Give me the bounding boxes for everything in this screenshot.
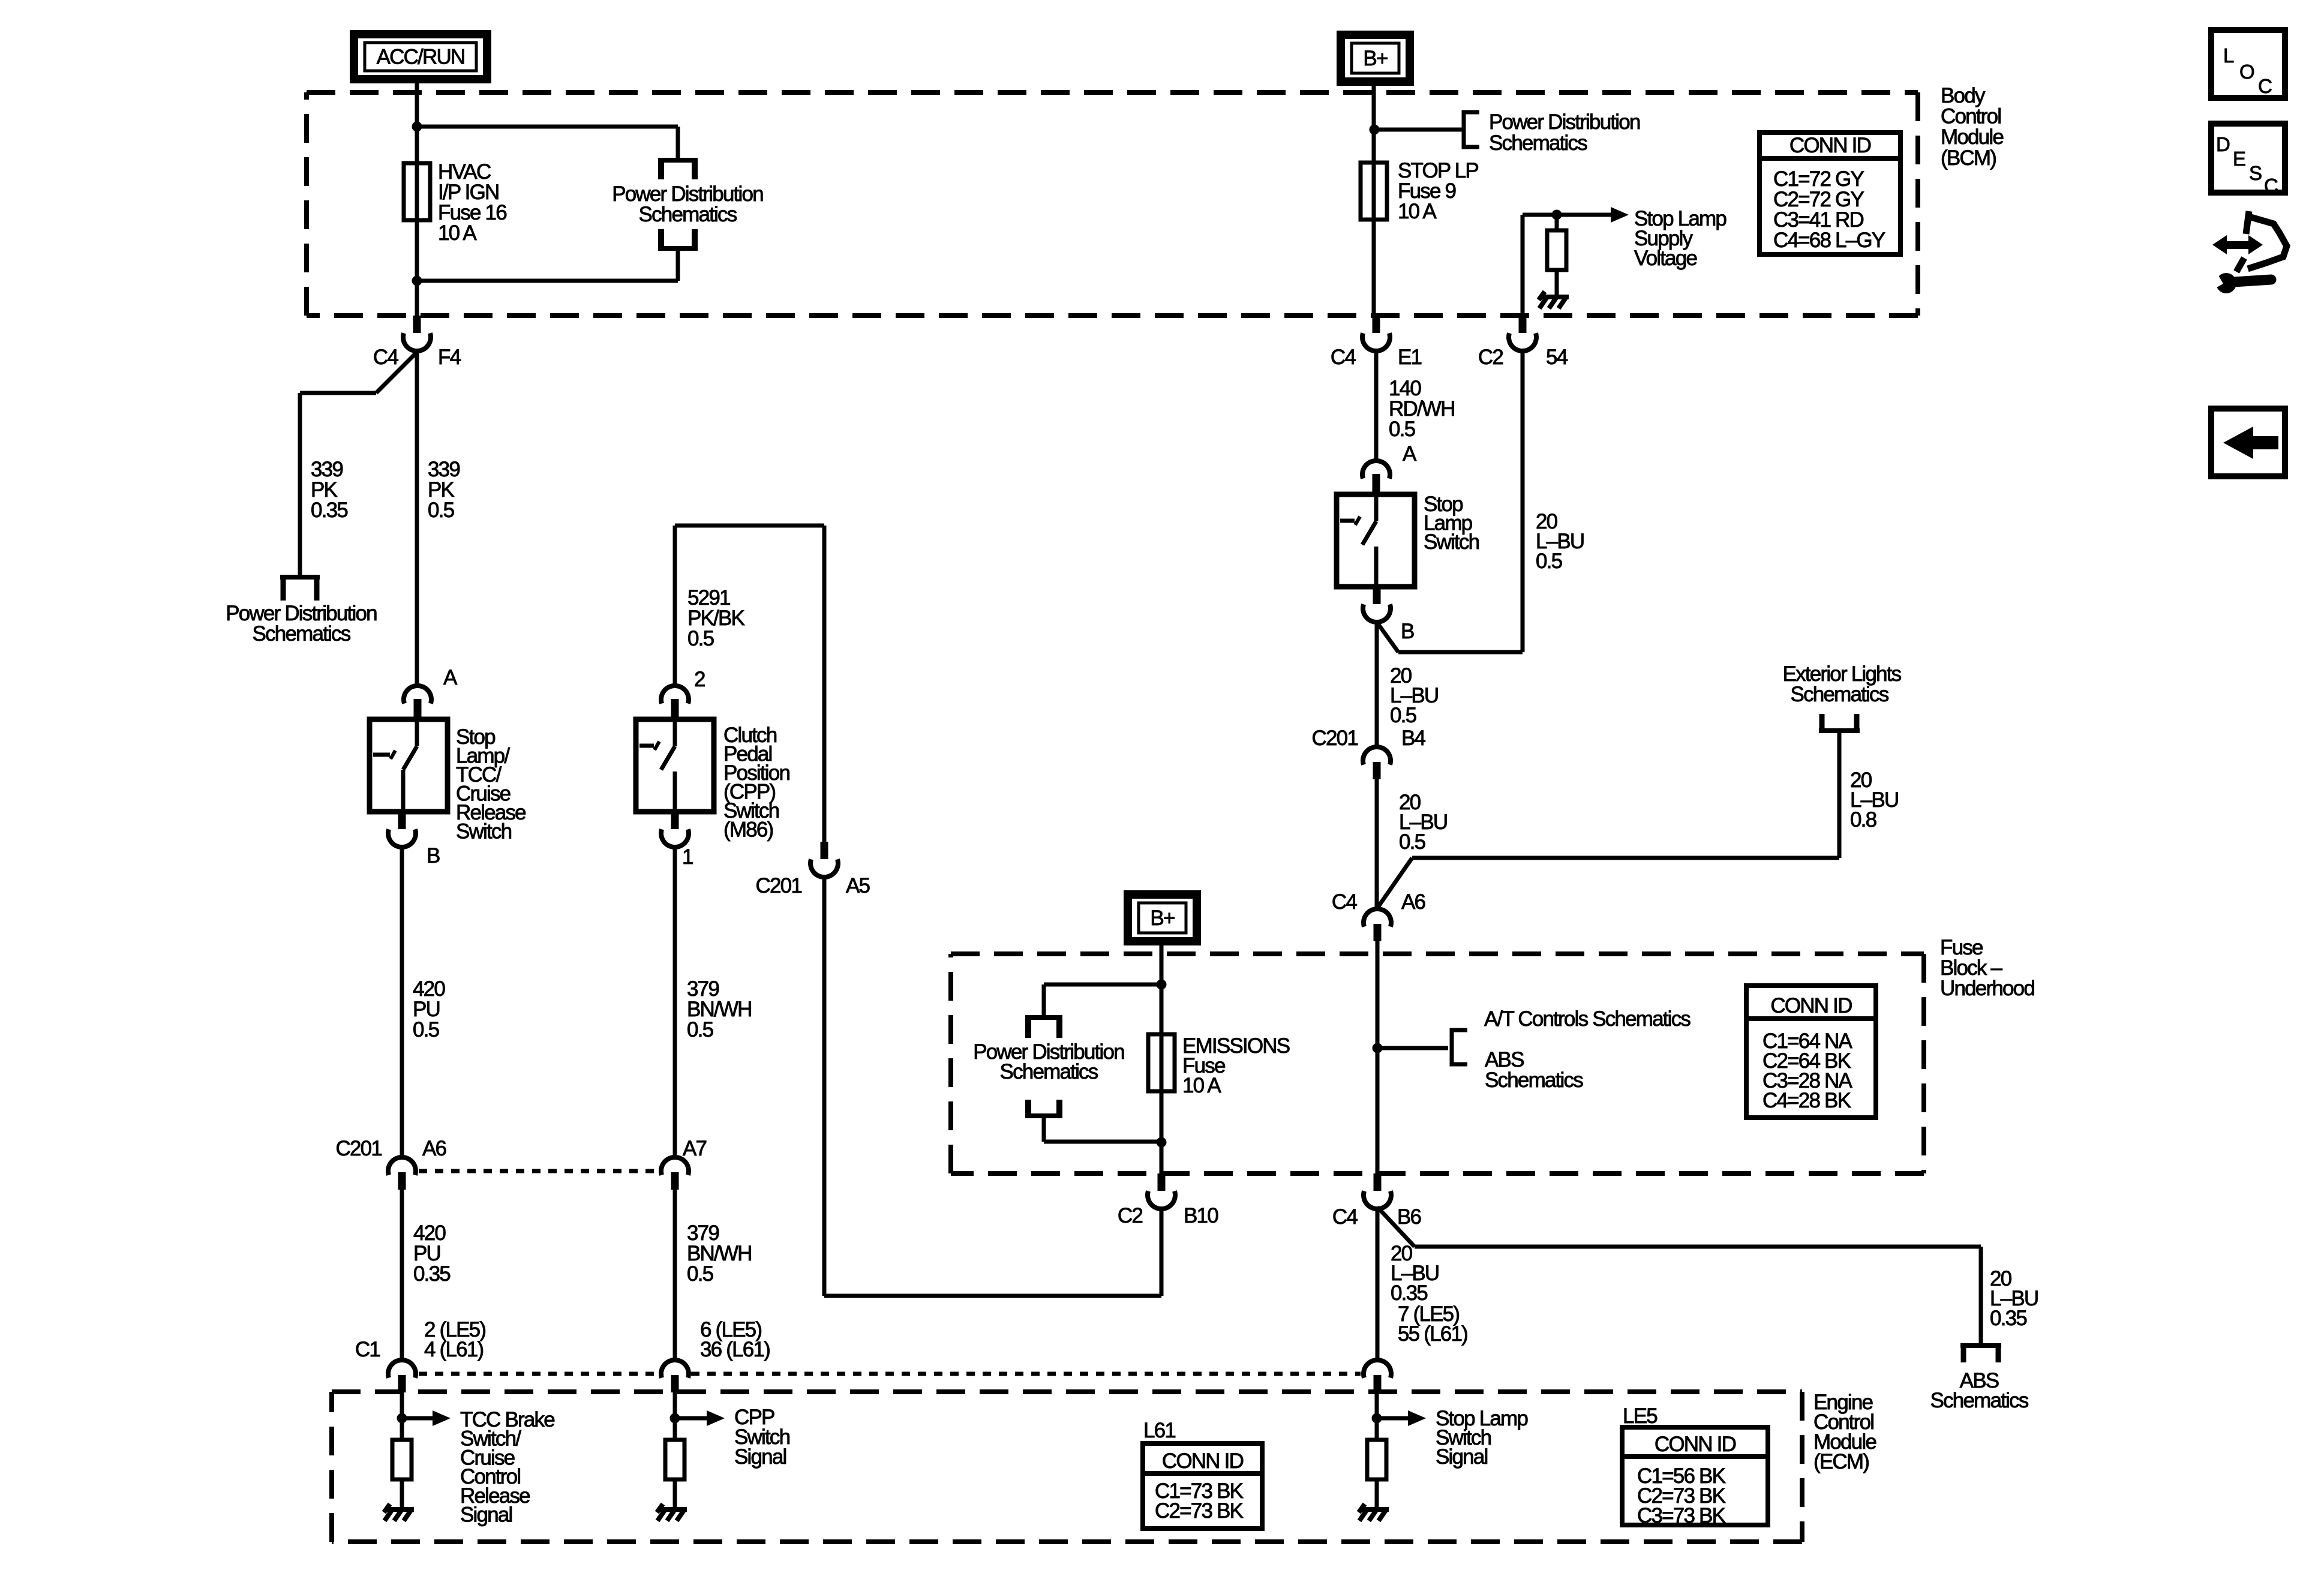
svg-text:A5: A5 [846,874,870,897]
svg-text:A: A [1403,442,1417,466]
svg-text:4 (L61): 4 (L61) [424,1338,483,1361]
svg-text:B6: B6 [1397,1205,1421,1229]
svg-text:A: A [443,666,458,689]
svg-text:0.5: 0.5 [687,1018,713,1041]
svg-text:(ECM): (ECM) [1813,1450,1869,1473]
svg-text:C4: C4 [1331,346,1356,369]
svg-text:E: E [2233,148,2245,170]
svg-text:Module: Module [1941,125,2003,149]
svg-text:Schematics: Schematics [1485,1068,1583,1092]
svg-text:10 A: 10 A [1182,1074,1221,1097]
svg-text:A6: A6 [1401,890,1425,914]
svg-text:C4: C4 [1332,1205,1358,1229]
svg-text:Body: Body [1941,84,1986,107]
svg-text:10 A: 10 A [438,221,477,245]
svg-text:1: 1 [682,845,693,869]
svg-text:S: S [2249,162,2262,184]
svg-text:C2: C2 [1118,1204,1142,1227]
svg-text:C4=68 L–GY: C4=68 L–GY [1773,229,1885,252]
svg-text:O: O [2239,61,2254,83]
svg-text:C201: C201 [336,1137,382,1160]
svg-text:D: D [2216,133,2230,155]
svg-text:B: B [1401,620,1414,643]
svg-text:36 (L61): 36 (L61) [700,1338,770,1361]
svg-text:C4: C4 [1332,890,1357,914]
svg-text:Voltage: Voltage [1634,247,1697,270]
svg-text:C201: C201 [756,874,802,897]
svg-text:0.5: 0.5 [687,627,714,650]
svg-text:Power Distribution: Power Distribution [1489,110,1640,134]
svg-text:0.5: 0.5 [687,1262,713,1286]
svg-text:Underhood: Underhood [1940,977,2034,1000]
svg-text:Schematics: Schematics [1000,1060,1098,1083]
svg-text:CONN ID: CONN ID [1162,1449,1244,1473]
svg-text:0.8: 0.8 [1850,808,1876,831]
svg-text:0.5: 0.5 [1536,550,1562,573]
svg-text:0.5: 0.5 [1399,830,1425,854]
svg-text:CONN ID: CONN ID [1655,1433,1736,1456]
svg-text:C201: C201 [1312,727,1358,750]
svg-text:A7: A7 [683,1137,707,1160]
svg-text:F4: F4 [438,346,461,369]
svg-text:ACC/RUN: ACC/RUN [377,46,465,69]
svg-text:2: 2 [694,668,705,691]
svg-text:Schematics: Schematics [1489,131,1587,155]
svg-text:C4: C4 [373,346,398,369]
svg-text:C3=73 BK: C3=73 BK [1637,1504,1726,1527]
svg-text:B4: B4 [1401,727,1426,750]
svg-text:L: L [2223,44,2234,67]
svg-text:Control: Control [1941,105,2001,128]
svg-text:0.35: 0.35 [311,499,347,522]
svg-text:A/T Controls Schematics: A/T Controls Schematics [1484,1007,1691,1031]
svg-text:Signal: Signal [460,1503,512,1527]
svg-text:Schematics: Schematics [1791,683,1889,706]
svg-text:0.35: 0.35 [1391,1281,1427,1305]
svg-text:0.5: 0.5 [413,1018,439,1041]
svg-text:54: 54 [1546,346,1568,369]
svg-text:(M86): (M86) [723,818,773,842]
svg-text:C2: C2 [1478,346,1503,369]
svg-text:LE5: LE5 [1623,1404,1657,1428]
svg-text:C4=28 BK: C4=28 BK [1762,1089,1851,1112]
svg-text:Switch: Switch [456,820,512,843]
svg-text:CONN ID: CONN ID [1789,134,1871,157]
svg-text:B10: B10 [1184,1204,1218,1227]
svg-text:B+: B+ [1150,906,1175,930]
svg-text:C2=73 BK: C2=73 BK [1155,1499,1244,1523]
svg-text:(BCM): (BCM) [1941,146,1996,170]
svg-text:B+: B+ [1363,47,1388,70]
svg-text:CONN ID: CONN ID [1770,994,1852,1017]
svg-text:E1: E1 [1398,346,1422,369]
svg-text:Signal: Signal [1436,1445,1488,1469]
svg-text:55 (L61): 55 (L61) [1398,1322,1467,1346]
svg-text:Schematics: Schematics [639,203,737,226]
svg-text:B: B [427,844,440,867]
svg-text:10 A: 10 A [1398,200,1437,223]
svg-text:Schematics: Schematics [253,622,351,646]
svg-text:0.35: 0.35 [1990,1307,2026,1330]
svg-text:Signal: Signal [734,1445,786,1469]
svg-text:0.5: 0.5 [1390,704,1416,727]
svg-text:L61: L61 [1143,1419,1175,1442]
svg-text:Switch: Switch [1424,530,1479,554]
svg-text:Schematics: Schematics [1930,1389,2029,1412]
svg-text:A6: A6 [422,1137,446,1160]
svg-text:C: C [2264,175,2278,197]
svg-text:C1: C1 [355,1338,380,1361]
svg-text:0.5: 0.5 [428,499,454,522]
svg-text:0.5: 0.5 [1389,418,1415,441]
svg-text:0.35: 0.35 [413,1262,450,1286]
svg-text:C: C [2258,75,2272,97]
